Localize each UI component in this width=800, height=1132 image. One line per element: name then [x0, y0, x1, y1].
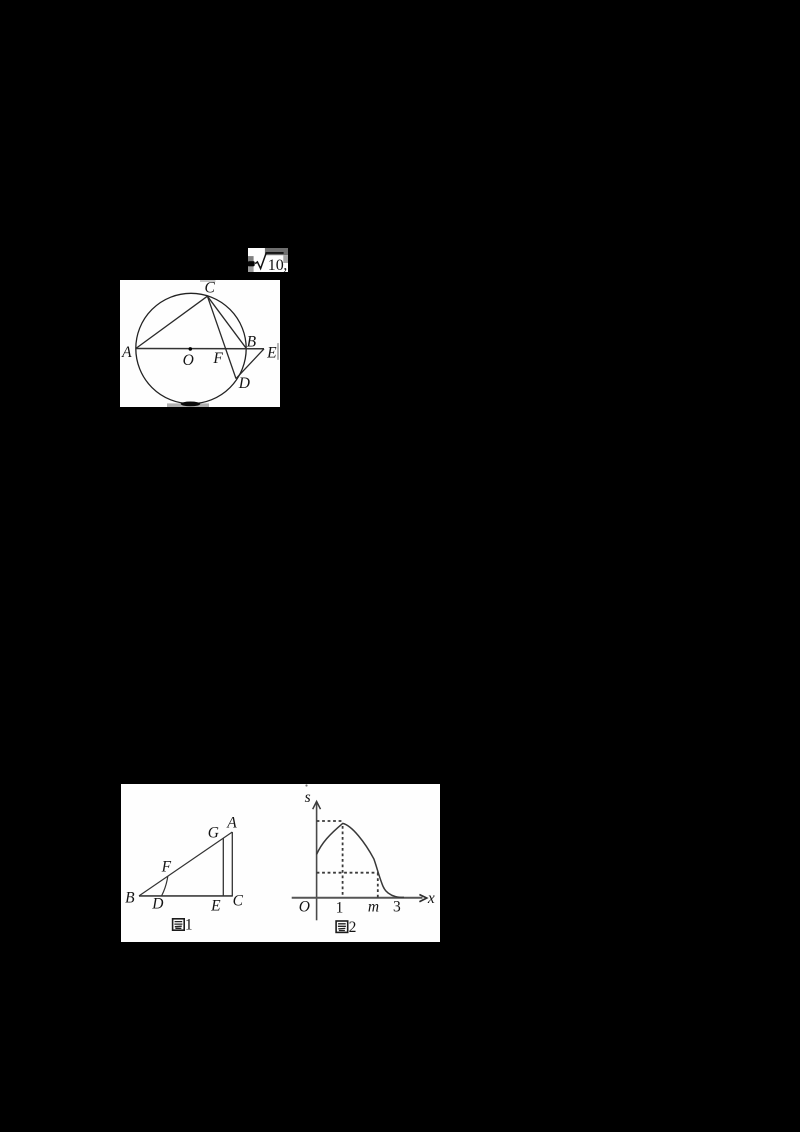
svg-text:C: C — [233, 892, 244, 909]
svg-text:x: x — [427, 890, 435, 907]
svg-text:O: O — [299, 898, 310, 915]
svg-text:2: 2 — [349, 919, 357, 936]
svg-text:1: 1 — [336, 900, 344, 917]
svg-text:3: 3 — [393, 898, 401, 915]
svg-text:G: G — [208, 825, 219, 842]
svg-text:m: m — [368, 899, 379, 916]
svg-text:F: F — [161, 859, 172, 876]
svg-text:O: O — [183, 352, 194, 369]
svg-text:A: A — [226, 815, 237, 832]
svg-text:1: 1 — [185, 917, 193, 934]
svg-text:C: C — [205, 280, 216, 297]
svg-text:,: , — [283, 257, 287, 273]
svg-text:D: D — [151, 896, 163, 913]
svg-text:B: B — [247, 333, 257, 350]
svg-text:F: F — [212, 350, 223, 367]
svg-text:E: E — [210, 898, 221, 915]
svg-text:10: 10 — [267, 257, 283, 272]
svg-text:A: A — [121, 344, 132, 361]
svg-text:D: D — [238, 375, 250, 392]
svg-text:B: B — [125, 890, 135, 907]
svg-text:s: s — [305, 789, 311, 806]
svg-text:E: E — [266, 345, 277, 362]
